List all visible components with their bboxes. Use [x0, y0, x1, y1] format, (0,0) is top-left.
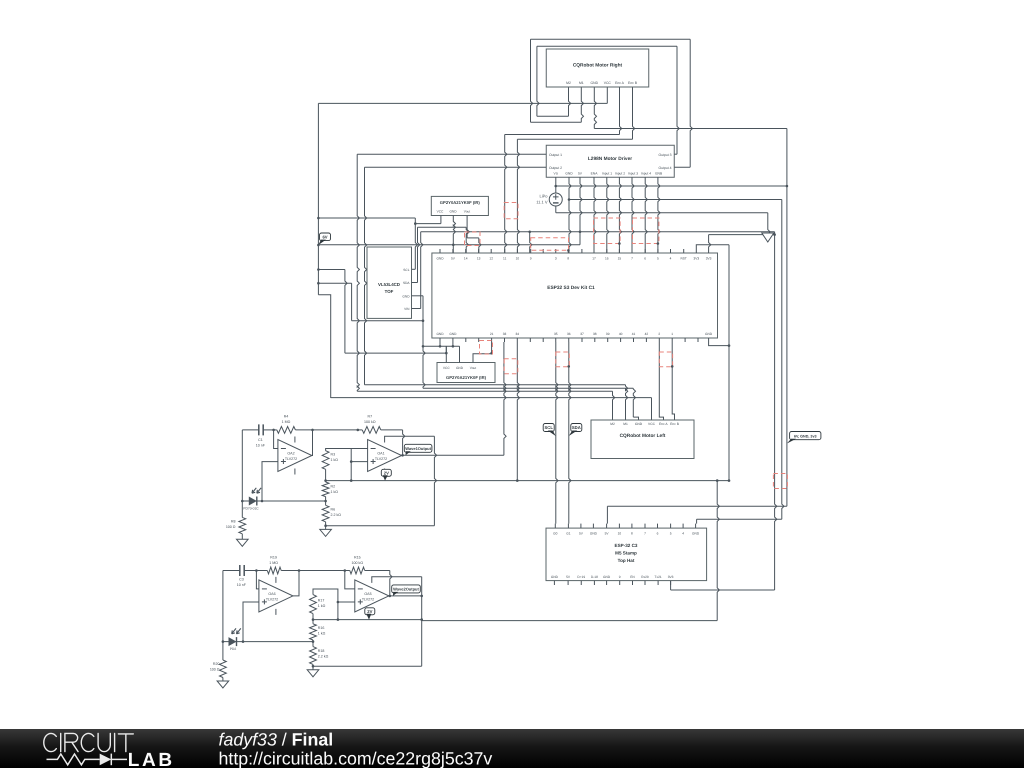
svg-text:GP2Y0A21YK0F (IR): GP2Y0A21YK0F (IR)	[446, 375, 487, 380]
svg-text:10: 10	[516, 257, 520, 261]
wire EncB MotorRight to ESP32 pin 10	[633, 87, 635, 139]
net flag antenna triangle	[768, 213, 770, 234]
wire SCL branch y269.5	[318, 269, 345, 271]
resistor R7	[358, 429, 362, 431]
svg-text:3: 3	[555, 257, 557, 261]
svg-text:Wave1Output: Wave1Output	[405, 446, 431, 451]
svg-text:Input 3: Input 3	[628, 172, 638, 176]
wire ESP32 GND bottom loop	[709, 342, 729, 346]
svg-text:VCC: VCC	[648, 422, 656, 426]
wire GND L298N down to ESP pin 8	[569, 177, 571, 253]
svg-text:OA2: OA2	[287, 452, 294, 456]
resistor R8	[239, 517, 246, 533]
svg-text:R2: R2	[331, 485, 336, 489]
svg-text:D+19: D+19	[577, 575, 585, 579]
wire R3 top to OA1 minus	[326, 449, 352, 481]
svg-text:41: 41	[632, 332, 636, 336]
red dashed rect right bus	[773, 474, 787, 489]
photodiode PD2	[223, 641, 313, 643]
svg-text:R3: R3	[331, 453, 336, 457]
svg-text:GND: GND	[436, 332, 444, 336]
svg-text:4: 4	[682, 532, 684, 536]
svg-text:TLV272: TLV272	[375, 457, 387, 461]
svg-text:G0: G0	[553, 532, 557, 536]
resistor R18	[312, 642, 314, 647]
svg-text:12: 12	[489, 257, 493, 261]
svg-text:36: 36	[567, 332, 571, 336]
wire GP2Y2 VCC GND to ESP GND	[445, 346, 447, 362]
flag SCL	[543, 424, 554, 432]
wire VL53 GND down to bundle B2	[412, 295, 424, 297]
svg-text:GND: GND	[635, 422, 643, 426]
svg-text:M1: M1	[579, 81, 584, 85]
wire R18 bottom loop	[313, 665, 422, 667]
resistor R3	[322, 451, 329, 470]
resistor R6	[325, 501, 327, 505]
svg-text:2.2 kΩ: 2.2 kΩ	[331, 513, 342, 517]
ESP32 S3 Dev Kit C1 box	[432, 253, 718, 338]
svg-text:PD70-01C: PD70-01C	[243, 506, 259, 510]
wire block1 top line	[242, 429, 258, 431]
svg-text:OA1: OA1	[377, 452, 384, 456]
svg-text:L298N Motor Driver: L298N Motor Driver	[588, 156, 632, 162]
svg-text:1 kΩ: 1 kΩ	[331, 490, 339, 494]
svg-text:2.2 kΩ: 2.2 kΩ	[318, 655, 329, 659]
wire VCC MotorRight 6V long line	[606, 87, 608, 103]
svg-text:OA6: OA6	[268, 592, 275, 596]
svg-text:Enc A: Enc A	[659, 422, 668, 426]
wire ESP32 pin 1 to MotorLeft EncB	[672, 342, 674, 420]
svg-text:100 Ω: 100 Ω	[226, 525, 236, 529]
svg-text:ESP32 S3 Dev Kit C1: ESP32 S3 Dev Kit C1	[547, 285, 595, 291]
svg-text:TLV272: TLV272	[285, 457, 297, 461]
wire M1 MotorRight to Output4 loop	[581, 87, 583, 122]
wire OA5 plus input	[338, 601, 355, 603]
svg-text:Input 2: Input 2	[615, 172, 625, 176]
wire Wave2 trunk y620	[422, 620, 718, 622]
CQRobot Motor Left box	[591, 420, 694, 459]
svg-text:VL53L4CD: VL53L4CD	[378, 282, 400, 287]
wire y353 to GP2Y2 VCC	[345, 352, 446, 354]
svg-text:100 kΩ: 100 kΩ	[364, 420, 376, 424]
svg-text:M2: M2	[566, 81, 571, 85]
svg-text:3V3: 3V3	[668, 575, 674, 579]
svg-text:35: 35	[554, 332, 558, 336]
wire x717 down to Wave2 trunk	[717, 481, 719, 621]
svg-text:C3: C3	[239, 578, 244, 582]
svg-text:GND: GND	[551, 575, 559, 579]
svg-text:1 kΩ: 1 kΩ	[318, 632, 326, 636]
ground under R8	[237, 539, 249, 546]
capacitor C3	[240, 565, 244, 576]
resistor R15	[345, 570, 350, 572]
svg-text:SDA: SDA	[403, 281, 410, 285]
wire ESP32 3V3 second to right bus	[709, 235, 711, 249]
svg-text:6: 6	[657, 532, 659, 536]
svg-text:VCC: VCC	[604, 81, 612, 85]
wire OA1 plus input	[351, 461, 367, 463]
svg-text:PD2: PD2	[230, 647, 237, 651]
red dashed rect pins 35 36	[556, 352, 570, 367]
svg-text:CQRobot Motor Right: CQRobot Motor Right	[573, 63, 623, 69]
svg-text:11: 11	[503, 257, 507, 261]
wire OA5 Vplus frame	[372, 575, 422, 578]
svg-text:1 MΩ: 1 MΩ	[282, 420, 291, 424]
footer logo CIRCUIT outline letters	[44, 733, 134, 751]
svg-text:Output 4: Output 4	[658, 166, 671, 170]
photodiode PD1	[242, 500, 325, 502]
red dashed rect inputs ENB	[633, 218, 659, 244]
svg-text:42: 42	[645, 332, 649, 336]
svg-text:TLV272: TLV272	[266, 598, 278, 602]
wire ESP32 pin 33 Wave1Output vertical	[504, 342, 506, 455]
svg-text:LAB: LAB	[128, 750, 175, 768]
svg-text:G1: G1	[566, 532, 570, 536]
red dashed rect pins 2 1	[659, 352, 672, 367]
wire OA2 plus input	[262, 462, 278, 501]
wire GP2Y1 GND to ESP32 5V pin	[453, 216, 455, 254]
svg-text:Input 1: Input 1	[602, 172, 612, 176]
resistor R2	[325, 481, 327, 482]
trunk T2 GND to right bus	[569, 199, 782, 201]
svg-text:1 kΩ: 1 kΩ	[331, 458, 339, 462]
svg-text:Tx21: Tx21	[655, 575, 662, 579]
svg-text:4: 4	[670, 257, 672, 261]
svg-text:Enc B: Enc B	[670, 422, 680, 426]
wire R7 down to OA1 output	[403, 430, 405, 455]
wire Output1 to left bus	[357, 153, 546, 155]
svg-text:R6: R6	[331, 508, 336, 512]
svg-text:Enc B: Enc B	[628, 81, 638, 85]
svg-text:33: 33	[503, 332, 507, 336]
svg-text:EN: EN	[630, 575, 635, 579]
svg-text:Output 1: Output 1	[549, 153, 562, 157]
svg-text:GND: GND	[692, 532, 700, 536]
wire 2V2 trunk y619.6	[313, 619, 422, 621]
svg-text:R4: R4	[284, 415, 289, 419]
svg-text:VCC: VCC	[443, 366, 450, 370]
svg-text:Top Hat: Top Hat	[618, 558, 635, 563]
svg-text:GND: GND	[603, 575, 611, 579]
svg-text:fadyf33 / Final: fadyf33 / Final	[219, 730, 334, 750]
wire ESP32 pin 34 to 2V trunk	[517, 342, 519, 481]
ESP-32 C3 M5 Stamp Top Hat box	[546, 528, 707, 581]
wire 2V trunk y480.6	[326, 480, 729, 482]
red dashed rect GP2Y1 Vout	[465, 232, 481, 246]
svg-text:R15: R15	[354, 555, 361, 559]
wire 6V line y245	[318, 244, 580, 246]
svg-text:Enc A: Enc A	[615, 81, 625, 85]
svg-text:Vout: Vout	[464, 210, 470, 214]
wire OA1 minus input	[351, 448, 367, 450]
svg-text:GND: GND	[436, 257, 444, 261]
svg-text:10 nF: 10 nF	[237, 583, 247, 587]
svg-text:Wave2Output: Wave2Output	[393, 587, 419, 592]
svg-text:OA5: OA5	[364, 592, 371, 596]
svg-text:TOF: TOF	[385, 289, 394, 294]
red dashed rect 6V line end	[531, 238, 569, 251]
resistor R19	[256, 570, 267, 572]
wire Vplus down to trunk and R18 loop	[421, 577, 423, 667]
LiPo battery 11.1V	[555, 177, 557, 193]
flag Wave1Output	[404, 444, 432, 452]
svg-text:CQRobot Motor Left: CQRobot Motor Left	[620, 433, 666, 439]
svg-text:D-18: D-18	[591, 575, 598, 579]
wire Output2 vertical to bundle B1	[365, 167, 367, 385]
svg-text:6V: 6V	[322, 235, 327, 240]
svg-text:8: 8	[567, 257, 569, 261]
wire OA5 output Wave2	[389, 595, 422, 597]
wire ESP32 pin 2 to MotorLeft EncA	[659, 342, 663, 420]
wire EncA MotorRight to ESP32 pin 11	[620, 87, 622, 135]
wire VL53 SDA to ESP32 pin 14	[412, 282, 418, 284]
wire Output2 to left bus	[365, 166, 547, 168]
bundle B1 Output2 to MotorLeft M1	[365, 384, 626, 386]
svg-text:14: 14	[464, 257, 468, 261]
svg-text:100 kΩ: 100 kΩ	[352, 561, 364, 565]
wire y320.7 below VL53 joins GND vertical	[352, 320, 423, 322]
right bus vertical x786.9 to C3 5V	[786, 129, 788, 507]
svg-text:TLV272: TLV272	[362, 598, 374, 602]
wire left bus vertical 6V	[317, 103, 319, 294]
op-amp OA6	[259, 580, 293, 612]
svg-text:R7: R7	[367, 415, 372, 419]
wire GND MotorRight to right bus	[594, 87, 596, 129]
wire M2 MotorRight to Output3 loop	[569, 87, 571, 116]
capacitor C1	[259, 424, 263, 435]
GP2Y0A21YK0F (IR) lower box	[437, 363, 495, 383]
svg-text:GND: GND	[456, 366, 464, 370]
wire GP2Y2 Vout to ESP32 pin 21	[473, 342, 492, 363]
wire 5V L298N	[580, 177, 582, 245]
svg-text:100 Ω: 100 Ω	[210, 668, 220, 672]
svg-text:ENB: ENB	[655, 172, 663, 176]
CQRobot Motor Right U-box	[546, 49, 649, 87]
red dashed rect pin21	[480, 341, 493, 355]
footer logo resistor and diode glyph	[47, 754, 128, 766]
svg-text:15: 15	[618, 257, 622, 261]
wire Output1 vertical to bundle B3	[357, 154, 359, 391]
right bus vertical x781.8 to C3 GND	[782, 200, 784, 520]
wire GP2Y1 Vout to ESP32 pin 13	[467, 216, 469, 238]
VL53L4CD TOF box	[367, 247, 412, 318]
svg-text:C1: C1	[258, 438, 263, 442]
red dashed rect pins 33 34	[504, 359, 518, 374]
flag 2V block1	[381, 469, 391, 476]
svg-text:VIN: VIN	[404, 307, 410, 311]
bundle B3 Output1 to MotorLeft M2	[357, 390, 612, 392]
svg-text:2V: 2V	[367, 609, 372, 614]
svg-text:3V3: 3V3	[693, 257, 699, 261]
bundle B4 6V bus to MotorLeft VCC	[331, 397, 652, 399]
svg-text:VCC: VCC	[437, 210, 444, 214]
wire GP2Y1 VCC to SCL node	[440, 216, 442, 224]
svg-text:39: 39	[606, 332, 610, 336]
svg-text:GND: GND	[705, 332, 713, 336]
svg-text:Output 2: Output 2	[549, 166, 562, 170]
svg-text:6: 6	[644, 257, 646, 261]
wire LiPo minus to T3 trunk	[555, 206, 557, 213]
svg-text:5: 5	[657, 257, 659, 261]
wire OA2 output to R7 node	[311, 430, 314, 456]
svg-text:R18: R18	[318, 649, 325, 653]
svg-text:M2: M2	[610, 422, 615, 426]
svg-text:Input 4: Input 4	[641, 172, 651, 176]
trunk C3 3V3 bottom	[670, 581, 672, 590]
svg-text:8: 8	[631, 532, 633, 536]
svg-text:5: 5	[670, 532, 672, 536]
trunk T1 VS to right bus	[556, 185, 787, 187]
svg-text:LiPo: LiPo	[539, 194, 548, 199]
wire R6 bottom loop	[326, 525, 435, 527]
wire block2 top line	[223, 570, 240, 572]
svg-text:GND: GND	[591, 81, 599, 85]
svg-text:7: 7	[644, 532, 646, 536]
wire ESP32 pin 35 to C3 G0 SCL	[556, 342, 558, 524]
svg-text:ESP-32 C3: ESP-32 C3	[615, 543, 638, 548]
svg-text:M1: M1	[623, 422, 628, 426]
flag 6V	[320, 233, 331, 241]
svg-text:R20: R20	[213, 662, 220, 666]
wire y218 to VL53 SCL and GP2Y1 VCC	[318, 217, 415, 219]
svg-text:16: 16	[605, 257, 609, 261]
svg-text:SCL: SCL	[403, 268, 409, 272]
svg-text:40: 40	[619, 332, 623, 336]
flag 6V GND 3v3	[790, 432, 821, 440]
flag Wave2Output	[392, 585, 421, 593]
svg-text:17: 17	[592, 257, 596, 261]
svg-text:http://circuitlab.com/ce22rg8j: http://circuitlab.com/ce22rg8j5c37v	[219, 749, 493, 768]
svg-text:GND: GND	[402, 294, 410, 298]
bundle B2 VL53 GND to MotorLeft GND	[423, 387, 633, 389]
wire OA2 minus input	[274, 430, 278, 449]
wire VL53 VIN long 6V rail y231.8	[412, 308, 421, 310]
resistor R17	[310, 595, 317, 614]
svg-text:9: 9	[530, 257, 532, 261]
svg-text:38: 38	[593, 332, 597, 336]
resistor R16	[312, 620, 314, 624]
svg-text:3V3: 3V3	[706, 257, 712, 261]
wire R19 to R15	[299, 570, 345, 572]
svg-text:10 nF: 10 nF	[256, 444, 266, 448]
svg-text:R17: R17	[318, 599, 325, 603]
svg-text:SCL: SCL	[545, 425, 554, 430]
wire R15 down to OA5 output	[390, 571, 392, 596]
wire ESP32 3V3 pin loop right	[696, 245, 729, 249]
red dashed rect ENA inputs	[594, 218, 621, 244]
svg-text:R19: R19	[270, 555, 277, 559]
flag SDA	[571, 424, 582, 432]
svg-text:SDA: SDA	[572, 425, 581, 430]
wire R4 to R7	[313, 429, 358, 431]
ground under R6	[325, 526, 327, 530]
wire ENA..ENB verticals to ESP32 top pins	[594, 177, 596, 253]
svg-text:2V: 2V	[384, 471, 389, 476]
resistor R20	[220, 660, 227, 678]
svg-text:1 MΩ: 1 MΩ	[269, 561, 278, 565]
svg-text:R8: R8	[231, 520, 236, 524]
ground under R20	[217, 681, 229, 688]
svg-text:R16: R16	[318, 626, 325, 630]
wire left vertical block2	[222, 571, 224, 661]
svg-text:1: 1	[671, 332, 673, 336]
svg-text:34: 34	[516, 332, 520, 336]
svg-text:10: 10	[618, 532, 622, 536]
wire SDA branch y283.2 to VL53 SDA	[318, 282, 351, 284]
wire OA1 Vplus frame	[385, 435, 435, 438]
GP2Y0A21YK0F (IR) upper box	[431, 196, 488, 215]
op-amp OA1	[368, 440, 402, 472]
svg-text:Rx20: Rx20	[641, 575, 649, 579]
wire OA5 minus input	[345, 571, 355, 589]
svg-text:M5 Stamp: M5 Stamp	[615, 551, 637, 556]
wire OA6 minus input	[256, 571, 259, 589]
op-amp OA2	[278, 440, 312, 472]
svg-text:1 kΩ: 1 kΩ	[318, 604, 326, 608]
svg-text:37: 37	[580, 332, 584, 336]
wire ESP32 pin 9 drop	[530, 232, 532, 253]
right bus vertical x774.6 to C3 3V3 bottom	[775, 232, 777, 590]
svg-text:11.1 V: 11.1 V	[536, 200, 548, 205]
resistor R4	[274, 429, 277, 431]
svg-text:GND: GND	[565, 172, 573, 176]
wire R17 top wire	[313, 589, 338, 620]
svg-text:13: 13	[477, 257, 481, 261]
svg-text:GND: GND	[449, 332, 457, 336]
wire ESP32 pin 36 to C3 G1 SDA	[569, 342, 571, 524]
red dashed rect EncA EncB	[504, 203, 518, 219]
wire OA6 plus input	[243, 602, 259, 642]
svg-text:ENA: ENA	[591, 172, 599, 176]
trunk C3 5V top	[607, 505, 787, 507]
svg-text:GND: GND	[449, 210, 457, 214]
svg-text:7: 7	[631, 257, 633, 261]
svg-text:21: 21	[490, 332, 494, 336]
svg-text:2: 2	[658, 332, 660, 336]
flag 2V block2	[365, 608, 375, 615]
wire left vertical block1	[241, 430, 243, 518]
svg-text:6V, GND, 3v3: 6V, GND, 3v3	[794, 434, 817, 438]
ground under R18	[312, 666, 314, 670]
svg-text:GND: GND	[590, 532, 598, 536]
svg-text:RST: RST	[681, 257, 687, 261]
op-amp OA5	[355, 580, 389, 612]
svg-text:Vout: Vout	[470, 366, 476, 370]
trunk C3 GND top	[697, 518, 782, 520]
wire ESP32 GND pins line y346.3	[423, 345, 460, 347]
wire OA1 output Wave1	[402, 454, 504, 456]
L298N Motor Driver box	[546, 145, 674, 177]
svg-text:GP2Y0A21YK0F (IR): GP2Y0A21YK0F (IR)	[440, 200, 481, 205]
svg-text:Output 3: Output 3	[658, 153, 671, 157]
wire OA6 output	[293, 571, 299, 596]
svg-text:9: 9	[619, 575, 621, 579]
